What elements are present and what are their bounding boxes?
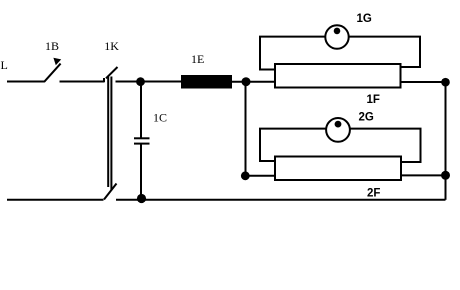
svg-text:1C: 1C: [153, 111, 167, 125]
svg-text:1F: 1F: [367, 94, 380, 106]
svg-text:1B: 1B: [45, 39, 59, 53]
svg-text:1K: 1K: [104, 39, 119, 53]
svg-text:2G: 2G: [359, 112, 374, 124]
svg-text:2F: 2F: [367, 188, 380, 200]
svg-text:1G: 1G: [357, 13, 372, 25]
svg-text:1E: 1E: [191, 52, 204, 66]
svg-text:L: L: [1, 58, 8, 72]
